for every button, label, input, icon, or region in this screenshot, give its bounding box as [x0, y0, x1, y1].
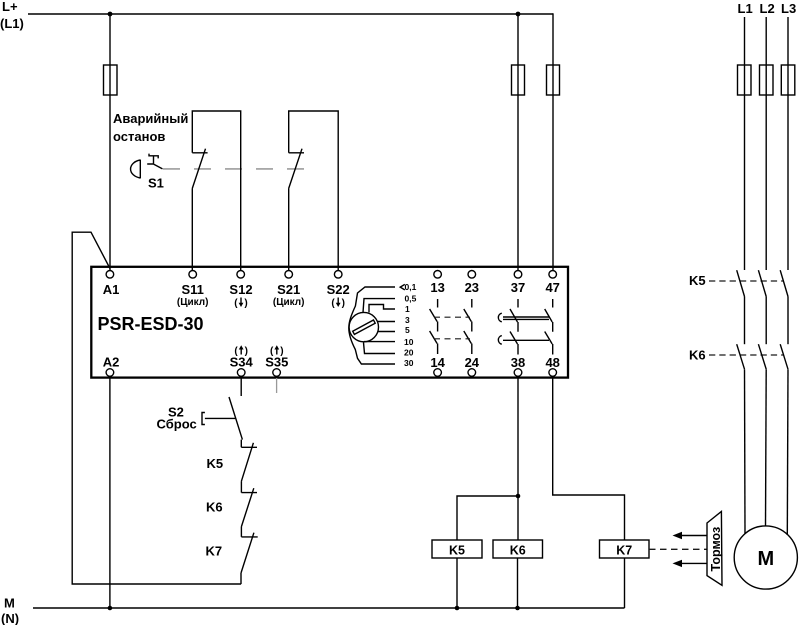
terminal S21 — [273, 271, 305, 309]
wire fuse F2 to terminal 37 — [517, 95, 519, 270]
rotary switch knob — [349, 312, 378, 341]
svg-text:L+: L+ — [2, 0, 18, 14]
mechanical link S1 dashed — [163, 168, 308, 170]
svg-text:38: 38 — [511, 355, 525, 370]
terminal 37 — [511, 271, 525, 296]
label PSR-ESD-30 — [98, 314, 204, 334]
svg-text:24: 24 — [465, 355, 480, 370]
junction L+/fuse branch — [108, 12, 113, 17]
selection arrow — [400, 284, 405, 290]
contact S1.1 fixed terminal — [192, 111, 240, 270]
relay box PSR-ESD-30 — [91, 267, 568, 378]
terminal 23 — [465, 271, 479, 296]
label L3 — [781, 1, 796, 16]
motor M — [734, 526, 797, 589]
fuse F4 — [738, 65, 752, 95]
svg-text:Аварийный: Аварийный — [113, 111, 188, 126]
junction 38/K5 — [516, 494, 521, 499]
wire K5 to K6 pole3 — [787, 297, 789, 345]
loop wire A1 — [72, 232, 241, 584]
label S2 — [157, 405, 197, 432]
svg-text:1: 1 — [405, 304, 410, 314]
wire L+ down to fuse F2 — [517, 14, 519, 65]
svg-text:48: 48 — [545, 355, 559, 370]
terminal 24 — [465, 355, 480, 376]
wire L1 to fuse F4 — [744, 17, 746, 65]
junction A2/rail — [108, 606, 113, 611]
wire L2 to fuse F5 — [765, 17, 767, 65]
wire F6 to K5 pole3 — [787, 95, 789, 270]
fuse F1 — [104, 65, 118, 95]
reset button S2 — [229, 397, 242, 447]
contact K6 aux — [241, 488, 257, 537]
terminal S11 — [177, 271, 209, 309]
svg-text:S11: S11 — [181, 282, 203, 297]
svg-text:47: 47 — [545, 280, 559, 295]
actuator S1 — [147, 154, 162, 169]
terminal 14 — [430, 355, 445, 376]
svg-text:L1: L1 — [738, 1, 753, 16]
svg-text:K5: K5 — [207, 456, 224, 471]
label K7 aux — [206, 544, 223, 559]
svg-text:20: 20 — [404, 347, 414, 357]
delay symbol row2 — [498, 336, 501, 345]
motor lead 1 — [744, 369, 747, 534]
svg-text:M: M — [757, 548, 774, 570]
fuse F2 — [512, 65, 525, 95]
svg-text:S12: S12 — [229, 282, 252, 297]
svg-text:S35: S35 — [265, 355, 288, 370]
wire L+ down to fuse F1 — [109, 14, 111, 65]
contact S1.2 fixed terminal — [289, 111, 339, 270]
brake arrow lower — [673, 560, 707, 567]
terminal S35 — [265, 345, 288, 376]
wire S34 down — [240, 377, 242, 397]
label L1 — [738, 1, 753, 16]
terminal 48 — [545, 355, 559, 376]
contactor K5 pole3 — [780, 270, 788, 296]
wire K7 coil to rail — [624, 558, 626, 608]
wire fuse F3 to terminal 47 — [552, 95, 554, 270]
timer scale values — [404, 282, 417, 368]
contact 37-38 delayed — [510, 299, 518, 355]
label L+ — [0, 0, 24, 31]
wire fuse F1 to A1 — [109, 95, 111, 270]
wire K6 coil to rail — [517, 558, 519, 608]
contactor K6 pole1 — [737, 344, 745, 369]
label K6 aux — [206, 499, 223, 514]
contactor K6 pole2 — [758, 344, 766, 369]
svg-text:(L1): (L1) — [0, 16, 24, 31]
wire 48 to K7 coil — [553, 377, 625, 541]
terminal 47 — [545, 271, 559, 296]
junction K5/rail — [455, 606, 460, 611]
contactor K5 pole1 — [737, 270, 745, 296]
wire F5 to K5 pole2 — [765, 95, 767, 270]
svg-text:10: 10 — [404, 337, 414, 347]
svg-text:останов: останов — [113, 129, 165, 144]
link bar row1 double — [503, 317, 549, 319]
terminal 38 — [511, 355, 525, 376]
svg-text:): ) — [280, 346, 283, 357]
timer fan wires — [349, 287, 395, 364]
wire 38 to coils — [517, 377, 519, 541]
svg-text:): ) — [245, 346, 248, 357]
terminal S34 — [230, 345, 254, 376]
svg-text:PSR-ESD-30: PSR-ESD-30 — [98, 314, 204, 334]
coil K7 — [600, 540, 650, 558]
svg-text:0,1: 0,1 — [405, 282, 417, 292]
svg-text:K5: K5 — [449, 544, 465, 558]
svg-text:K6: K6 — [510, 544, 526, 558]
terminal 13 — [430, 271, 444, 296]
svg-text:Сброс: Сброс — [157, 417, 197, 432]
svg-text:(Цикл): (Цикл) — [177, 297, 209, 308]
junction K6/rail — [515, 606, 520, 611]
svg-text:0,5: 0,5 — [405, 294, 417, 304]
svg-text:S21: S21 — [277, 282, 300, 297]
wire K5 to K6 pole1 — [744, 297, 746, 345]
coil K6 — [493, 540, 543, 558]
label K6 main — [689, 348, 706, 363]
svg-text:M: M — [4, 596, 15, 611]
svg-text:L3: L3 — [781, 1, 796, 16]
svg-text:14: 14 — [430, 355, 445, 370]
svg-text:S1: S1 — [148, 176, 164, 191]
link K6 main dashed — [709, 354, 783, 356]
svg-text:L2: L2 — [760, 1, 775, 16]
brake arrow upper — [673, 532, 707, 539]
fuse F6 — [781, 65, 795, 95]
terminal S22 — [327, 271, 350, 310]
link K7 brake dashed — [649, 548, 707, 550]
terminal S12 — [229, 271, 252, 310]
delay symbol row1 — [498, 313, 501, 322]
wire F4 to K5 pole1 — [744, 95, 746, 270]
link bar row2 solid — [503, 339, 549, 341]
pushbutton head S1 — [131, 160, 141, 179]
svg-text:K6: K6 — [206, 499, 223, 514]
contact K5 aux — [241, 443, 257, 493]
svg-text:K7: K7 — [616, 544, 632, 558]
label emergency stop — [113, 111, 188, 144]
contact 13-14 — [430, 299, 438, 354]
wire L+ corner down to fuse F3 — [552, 13, 554, 65]
fuse F3 — [547, 65, 560, 95]
svg-text:A2: A2 — [103, 355, 120, 370]
terminal A2 — [103, 355, 120, 377]
wire K5 coil to rail — [456, 558, 458, 608]
svg-text:S22: S22 — [327, 282, 350, 297]
junction L+/37 branch — [516, 12, 521, 17]
svg-text:13: 13 — [430, 280, 444, 295]
fuse F5 — [760, 65, 774, 95]
brake symbol — [707, 512, 723, 586]
terminal A1 — [103, 271, 120, 298]
link K5 main dashed — [709, 280, 783, 282]
contact 23-24 — [464, 299, 472, 354]
contactor K6 pole3 — [780, 344, 788, 369]
svg-text:K6: K6 — [689, 348, 706, 363]
svg-text:A1: A1 — [103, 282, 120, 297]
svg-text:K5: K5 — [689, 273, 706, 288]
actuator S2 — [202, 413, 236, 425]
svg-text:Тормоз: Тормоз — [709, 527, 723, 572]
svg-text:5: 5 — [405, 325, 410, 335]
label K5 main — [689, 273, 706, 288]
svg-text:3: 3 — [405, 315, 410, 325]
wire L3 to fuse F6 — [787, 17, 789, 65]
contactor K5 pole2 — [758, 270, 766, 296]
wire K5 to K6 pole2 — [765, 297, 767, 345]
contact K7 aux — [241, 533, 258, 584]
label S1 — [148, 176, 164, 191]
svg-text:K7: K7 — [206, 544, 223, 559]
svg-text:37: 37 — [511, 280, 525, 295]
svg-text:30: 30 — [404, 358, 414, 368]
coil K5 — [432, 540, 482, 558]
net M rail — [33, 607, 625, 609]
svg-text:(Цикл): (Цикл) — [273, 297, 305, 308]
label M (N) — [1, 596, 19, 625]
motor lead 3 — [786, 369, 789, 535]
stub S35 — [276, 378, 278, 393]
label K5 aux — [207, 456, 224, 471]
contact 47-48 delayed — [545, 299, 553, 355]
svg-text:(N): (N) — [1, 611, 19, 625]
wire A2 to M rail — [109, 377, 111, 609]
label L2 — [760, 1, 775, 16]
svg-text:S34: S34 — [230, 355, 254, 370]
svg-text:23: 23 — [465, 280, 479, 295]
motor lead 2 — [765, 369, 768, 526]
net L+ rail — [28, 13, 553, 15]
wire branch to K5 coil — [457, 496, 518, 540]
svg-text:): ) — [342, 298, 345, 309]
svg-text:): ) — [244, 298, 247, 309]
link 13-23 dashed — [434, 317, 470, 339]
